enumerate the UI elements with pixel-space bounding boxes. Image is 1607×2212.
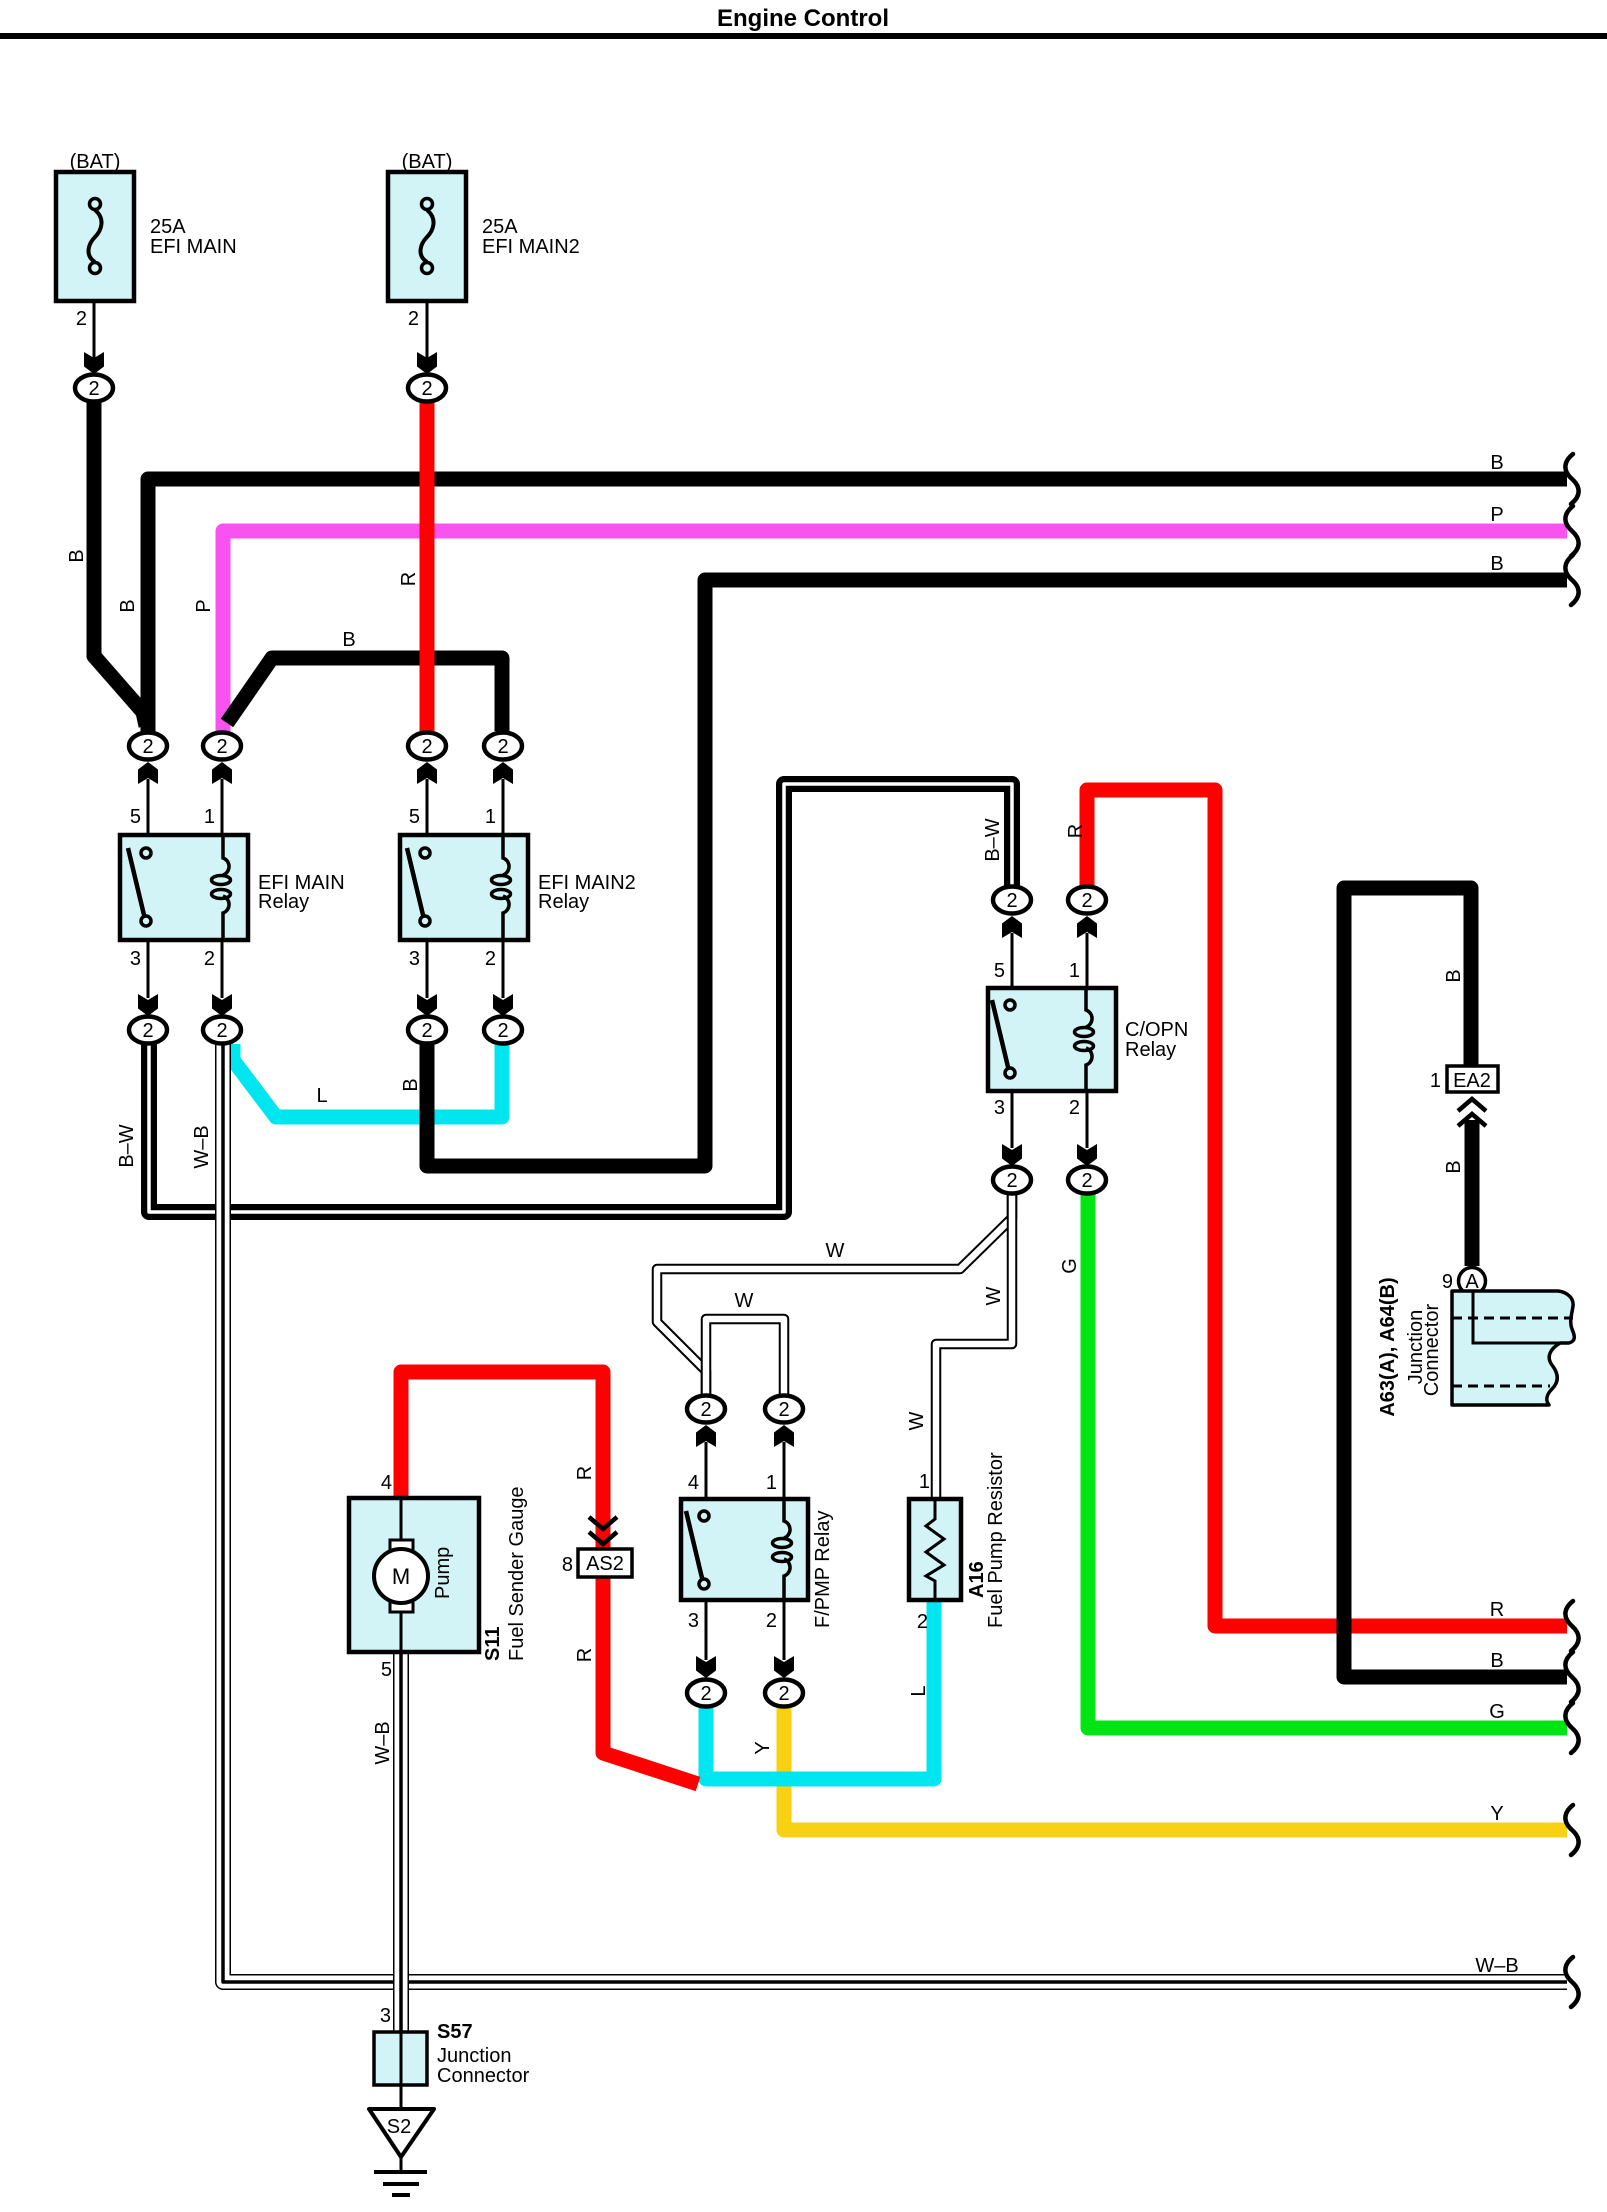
relay F/PMP box [681, 1499, 834, 1628]
svg-text:1: 1 [1430, 1070, 1441, 1092]
svg-text:W: W [983, 1286, 1005, 1305]
wire R: C/OPN relay pin 1 to right edge (red) [1087, 790, 1567, 1626]
svg-text:B: B [117, 599, 139, 612]
wire R: fuse EFI MAIN2 output down to EFI MAIN2 relay pin 5 [420, 399, 435, 731]
svg-text:Connector: Connector [437, 2065, 530, 2087]
svg-text:1: 1 [485, 806, 496, 828]
svg-text:2: 2 [216, 736, 227, 758]
wire Y: yellow from F/PMP relay pin 2 to right edge [784, 1704, 1567, 1830]
svg-text:2: 2 [76, 308, 87, 330]
svg-text:AS2: AS2 [586, 1553, 624, 1575]
svg-text:B: B [1490, 1650, 1503, 1672]
svg-text:2: 2 [216, 1020, 227, 1042]
wire-end squiggle R [1565, 1601, 1578, 1651]
label G right edge [1489, 1701, 1505, 1723]
wire B: junction connector A to EA2 [1465, 1120, 1480, 1266]
svg-text:2: 2 [1069, 1097, 1080, 1119]
svg-text:P: P [1490, 504, 1503, 526]
fuse EFI MAIN (25A) [56, 151, 237, 301]
svg-text:Y: Y [1490, 1803, 1503, 1825]
svg-text:2: 2 [700, 1399, 711, 1421]
svg-text:2: 2 [421, 736, 432, 758]
svg-text:R: R [1065, 824, 1087, 838]
svg-text:W–B: W–B [191, 1125, 213, 1168]
node 2 oval C/OPN pin 3 [993, 1167, 1031, 1194]
svg-text:2: 2 [497, 736, 508, 758]
label R fuse2 wire [398, 572, 420, 586]
wire L: cyan jumper EFI MAIN relay pin 2 to EFI MAIN2 relay pin 2 [233, 1044, 502, 1117]
label B EA2 lower [1443, 1160, 1465, 1173]
svg-text:B: B [1443, 969, 1465, 982]
wire-end squiggle B lower [1565, 1652, 1578, 1702]
svg-text:2: 2 [421, 378, 432, 400]
svg-text:Relay: Relay [258, 891, 309, 913]
svg-text:W: W [826, 1240, 845, 1262]
svg-text:B: B [66, 549, 88, 562]
svg-text:1: 1 [919, 1471, 930, 1493]
svg-text:W–B: W–B [1475, 1955, 1518, 1977]
label B-W at C/OPN [982, 818, 1004, 861]
node 2 oval below fuse EFI MAIN2 [408, 375, 446, 402]
svg-text:3: 3 [688, 1610, 699, 1632]
svg-text:EFI MAIN2: EFI MAIN2 [482, 236, 580, 258]
svg-text:2: 2 [1006, 890, 1017, 912]
wire B: EA2 ground hook to right edge B [1344, 888, 1567, 1677]
svg-text:2: 2 [917, 1611, 928, 1633]
svg-text:M: M [392, 1564, 410, 1589]
label Y right edge [1490, 1803, 1503, 1825]
svg-text:Relay: Relay [538, 891, 589, 913]
svg-text:2: 2 [1006, 1170, 1017, 1192]
svg-text:3: 3 [994, 1097, 1005, 1119]
relay F/PMP pin 4 [688, 1425, 716, 1500]
svg-text:2: 2 [485, 948, 496, 970]
wire B: EFI MAIN relay pin 5 node to right edge [148, 479, 1567, 733]
connector EA2 [1430, 1066, 1498, 1126]
svg-text:L: L [316, 1085, 327, 1107]
svg-text:Y: Y [752, 1741, 774, 1754]
svg-text:Pump: Pump [432, 1547, 454, 1599]
junction connector A63(A), A64(B) [1377, 1277, 1574, 1416]
relay EFI MAIN2 box [400, 835, 636, 940]
relay EFI MAIN2 pin 5 [409, 762, 437, 836]
svg-text:F/PMP Relay: F/PMP Relay [812, 1511, 834, 1628]
svg-text:R: R [574, 1648, 596, 1662]
wire-end squiggle W-B [1565, 1957, 1578, 2007]
label B EFI MAIN2 pin3 wire [400, 1078, 422, 1091]
svg-text:8: 8 [562, 1554, 573, 1576]
svg-text:S57: S57 [437, 2021, 473, 2043]
svg-text:W: W [906, 1411, 928, 1430]
svg-text:1: 1 [204, 806, 215, 828]
svg-text:2: 2 [88, 378, 99, 400]
svg-text:L: L [908, 1685, 930, 1696]
svg-text:B: B [342, 629, 355, 651]
svg-text:B: B [1490, 452, 1503, 474]
svg-text:A63(A), A64(B): A63(A), A64(B) [1377, 1277, 1399, 1416]
svg-text:5: 5 [994, 960, 1005, 982]
label P relay feed vertical [193, 599, 215, 612]
wire-end squiggle B mid [1565, 555, 1578, 605]
svg-text:G: G [1059, 1258, 1081, 1274]
fuse EFI MAIN2 (25A) [388, 151, 580, 301]
svg-text:2: 2 [1081, 1170, 1092, 1192]
wire B: branch from pin-1 node to EFI MAIN2 relay pin 1 [227, 658, 502, 731]
relay C/OPN pin 5 [994, 916, 1022, 989]
svg-text:Junction: Junction [437, 2045, 512, 2067]
node 2 oval F/PMP pin 3 [687, 1680, 725, 1707]
svg-text:25A: 25A [150, 216, 186, 238]
wire R: pump pin 4 via AS2 to F/PMP relay pin 3 node [401, 1372, 698, 1784]
label W-B pump wire [372, 1721, 394, 1764]
label B EA2 upper [1443, 969, 1465, 982]
svg-text:1: 1 [1069, 960, 1080, 982]
wire B: EFI MAIN2 relay pin 3 down, right, up to right edge [427, 580, 1567, 1166]
svg-text:2: 2 [700, 1683, 711, 1705]
fuse EFI MAIN2 pin 2 wire with arrow [408, 301, 437, 374]
svg-text:R: R [1490, 1599, 1504, 1621]
label W long horizontal [826, 1240, 845, 1262]
relay EFI MAIN2 pin 3 [409, 940, 437, 1016]
svg-text:Fuel Sender Gauge: Fuel Sender Gauge [506, 1486, 528, 1661]
svg-text:B: B [400, 1078, 422, 1091]
wire W: C/OPN relay pin 3 to A16 resistor pin 1 (white) [936, 1192, 1012, 1499]
label R at C/OPN [1065, 824, 1087, 838]
relay C/OPN pin 2 [1069, 1091, 1097, 1166]
label W jumper [735, 1290, 754, 1312]
svg-text:2: 2 [142, 736, 153, 758]
label B fuse1 wire [66, 549, 88, 562]
wire-end squiggle P [1565, 506, 1578, 556]
label W right vertical [983, 1286, 1005, 1305]
node 2 oval C/OPN pin 1 [1068, 887, 1106, 914]
label B right edge lower [1490, 1650, 1503, 1672]
svg-text:2: 2 [778, 1683, 789, 1705]
label B right edge top [1490, 452, 1503, 474]
label B right edge mid [1490, 553, 1503, 575]
wire B: fuse EFI MAIN output down to EFI MAIN relay pin 5 [94, 399, 146, 726]
svg-text:B: B [1443, 1160, 1465, 1173]
label B-W left [116, 1124, 138, 1167]
label B relay feed vertical [117, 599, 139, 612]
label L cyan jumper [316, 1085, 327, 1107]
relay EFI MAIN pin 5 [130, 762, 158, 836]
svg-text:2: 2 [421, 1020, 432, 1042]
resistor A16 Fuel Pump Resistor [909, 1452, 1007, 1633]
svg-text:Connector: Connector [1421, 1304, 1443, 1397]
label Y F/PMP pin 2 wire [752, 1741, 774, 1754]
svg-text:2: 2 [778, 1399, 789, 1421]
connector AS2 [562, 1517, 632, 1577]
node 2 oval EFI MAIN pin 3 [129, 1017, 167, 1044]
wire P: pink feed to EFI MAIN relay pin 1, to right edge [223, 531, 1567, 737]
relay EFI MAIN pin 3 [130, 940, 158, 1016]
svg-text:(BAT): (BAT) [70, 151, 121, 173]
svg-text:5: 5 [381, 1659, 392, 1681]
wire-end squiggle B top [1565, 454, 1578, 504]
svg-text:W–B: W–B [372, 1721, 394, 1764]
ground S2 [369, 2085, 434, 2195]
svg-text:W: W [735, 1290, 754, 1312]
relay EFI MAIN box [120, 835, 345, 940]
node A circle 9 [1442, 1268, 1486, 1295]
node 2 oval EFI MAIN pin 5 [129, 733, 167, 760]
svg-text:2: 2 [142, 1020, 153, 1042]
svg-text:3: 3 [380, 2005, 391, 2027]
svg-text:3: 3 [409, 948, 420, 970]
title Engine Control [0, 5, 1607, 36]
wire W-B: EFI MAIN relay pin 2 down and to right edge (white w/ black stripe) [223, 1044, 1567, 1982]
svg-text:2: 2 [497, 1020, 508, 1042]
svg-text:2: 2 [408, 308, 419, 330]
node 2 oval EFI MAIN2 pin 1 [484, 733, 522, 760]
fuse EFI MAIN pin 2 wire with arrow [76, 301, 104, 374]
label G at C/OPN pin 2 [1059, 1258, 1081, 1274]
node 2 oval EFI MAIN2 pin 5 [408, 733, 446, 760]
svg-text:3: 3 [130, 948, 141, 970]
svg-text:(BAT): (BAT) [402, 151, 453, 173]
svg-text:G: G [1489, 1701, 1505, 1723]
relay EFI MAIN2 pin 2 [485, 940, 513, 1016]
svg-text:5: 5 [130, 806, 141, 828]
svg-text:S2: S2 [387, 2116, 411, 2138]
node 2 oval F/PMP pin 4 [687, 1396, 725, 1423]
svg-text:2: 2 [204, 948, 215, 970]
relay F/PMP pin 3 [688, 1600, 716, 1678]
node 2 oval EFI MAIN2 pin 2 [484, 1017, 522, 1044]
svg-text:P: P [193, 599, 215, 612]
svg-text:5: 5 [409, 806, 420, 828]
node 2 oval below fuse EFI MAIN [75, 375, 113, 402]
svg-text:B–W: B–W [982, 818, 1004, 861]
label W near A16 [906, 1411, 928, 1430]
label L near A16 pin 2 [908, 1685, 930, 1696]
svg-text:B: B [1490, 553, 1503, 575]
svg-text:1: 1 [766, 1472, 777, 1494]
relay C/OPN pin 3 [994, 1091, 1022, 1166]
svg-text:4: 4 [381, 1472, 392, 1494]
label W-B left [191, 1125, 213, 1168]
svg-text:EFI MAIN: EFI MAIN [150, 236, 237, 258]
svg-text:S11: S11 [482, 1627, 504, 1661]
wire-end squiggle Y [1565, 1805, 1578, 1855]
junction connector S57 [374, 2005, 530, 2087]
wire G: green from C/OPN relay pin 2 to right edge [1088, 1192, 1567, 1728]
relay F/PMP pin 1 [766, 1425, 794, 1500]
node 2 oval EFI MAIN2 pin 3 [408, 1017, 446, 1044]
node 2 oval C/OPN pin 2 [1068, 1167, 1106, 1194]
svg-text:Fuel Pump Resistor: Fuel Pump Resistor [985, 1452, 1007, 1628]
wire W-B: pump pin 5 down to S57 junction connector [393, 1652, 409, 2032]
svg-text:25A: 25A [482, 216, 518, 238]
node 2 oval F/PMP pin 2 [765, 1680, 803, 1707]
wire W: jumper F/PMP relay pin 4 to pin 1 (white) [706, 1319, 784, 1396]
svg-text:Relay: Relay [1125, 1039, 1176, 1061]
node 2 oval EFI MAIN pin 1 [203, 733, 241, 760]
wire B-W: EFI MAIN relay pin 3 to C/OPN relay pin 5 (black w/ white stripe) [149, 784, 1012, 1212]
relay EFI MAIN pin 2 [204, 940, 232, 1016]
svg-text:R: R [398, 572, 420, 586]
wire W: C/OPN relay pin 3 to F/PMP relay pin 4 (white) [657, 1192, 1012, 1396]
relay C/OPN box [988, 988, 1188, 1091]
node 2 oval EFI MAIN pin 2 [203, 1017, 241, 1044]
label W-B right edge [1475, 1955, 1518, 1977]
label R above AS2 [574, 1466, 596, 1480]
pump S11 Fuel Sender Gauge [349, 1472, 528, 1681]
relay F/PMP pin 2 [766, 1600, 794, 1678]
svg-text:4: 4 [688, 1472, 699, 1494]
relay C/OPN pin 1 [1069, 916, 1097, 989]
wire-end squiggle G [1565, 1703, 1578, 1753]
node 2 oval C/OPN pin 5 [993, 887, 1031, 914]
label R below AS2 [574, 1648, 596, 1662]
node 2 oval F/PMP pin 1 [765, 1396, 803, 1423]
label P right edge [1490, 504, 1503, 526]
svg-text:EA2: EA2 [1453, 1070, 1491, 1092]
svg-text:2: 2 [1081, 890, 1092, 912]
svg-text:Engine Control: Engine Control [717, 5, 889, 32]
label B coil jumper [342, 629, 355, 651]
svg-text:R: R [574, 1466, 596, 1480]
wire L: cyan from F/PMP relay pin 3 to A16 resistor pin 2 [706, 1598, 934, 1779]
svg-text:2: 2 [766, 1610, 777, 1632]
svg-text:C/OPN: C/OPN [1125, 1019, 1188, 1041]
label R right edge [1490, 1599, 1504, 1621]
relay EFI MAIN2 pin 1 [485, 762, 513, 836]
relay EFI MAIN pin 1 [204, 762, 232, 836]
svg-text:B–W: B–W [116, 1124, 138, 1167]
